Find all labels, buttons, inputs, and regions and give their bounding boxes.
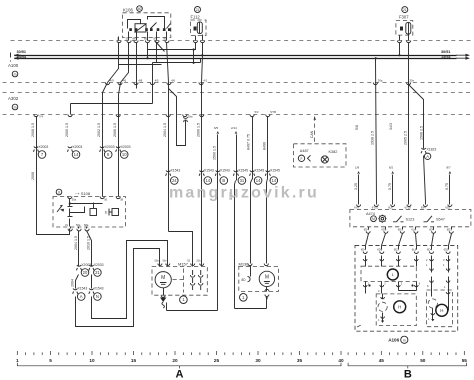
wire X2003/20 to X1543/A xyxy=(76,275,79,289)
connector X1545 /14 on wire x252 xyxy=(250,171,254,172)
pump M130 ground bumps xyxy=(265,289,269,291)
switch S108 top pin sockets xyxy=(68,197,72,199)
svg-text:N: N xyxy=(96,294,99,299)
wire link down to routing xyxy=(152,63,154,104)
wire stub arrow 5/1 xyxy=(358,175,360,202)
svg-text:~+ S108: ~+ S108 xyxy=(75,191,91,196)
svg-text:6X4: 6X4 xyxy=(421,205,426,209)
svg-text:X2033: X2033 xyxy=(94,263,104,267)
module boundary A302 dashed line xyxy=(3,114,471,116)
relay K106 pin sockets xyxy=(117,41,121,43)
motor M157 internal divider xyxy=(183,269,185,293)
ground link horizontal under M157 xyxy=(167,310,218,312)
lamp2 pin bottom xyxy=(432,309,434,315)
wire routing horizontal y103 xyxy=(71,103,153,105)
connector X1823 /A xyxy=(421,148,425,149)
svg-text:21: 21 xyxy=(95,270,100,275)
svg-text:14: 14 xyxy=(256,178,261,183)
lamp pin top xyxy=(382,294,384,299)
svg-text:14: 14 xyxy=(205,178,210,183)
svg-text:8D: 8D xyxy=(242,278,247,282)
inner dashed box illumination xyxy=(376,294,416,326)
wires A474 to A106 xyxy=(366,234,369,246)
circled position number F307 xyxy=(402,7,408,13)
pump M130 pin sockets xyxy=(248,264,252,266)
svg-text:1938 2.5: 1938 2.5 xyxy=(371,131,375,145)
svg-text:A100: A100 xyxy=(8,63,19,68)
right inner dashed box lamp 2 xyxy=(427,290,453,327)
svg-text:7/4: 7/4 xyxy=(39,115,43,119)
svg-text:87: 87 xyxy=(154,37,158,41)
boundary dashed line top (connector row) xyxy=(11,40,471,42)
junction dot bus 15 xyxy=(146,57,148,59)
svg-text:4/6: 4/6 xyxy=(171,79,175,83)
connector X2003 /20 xyxy=(77,265,81,266)
wire stub arrow 8/7 xyxy=(449,175,451,202)
svg-text:2004: 2004 xyxy=(71,279,75,287)
bold circle lamp H xyxy=(394,301,406,313)
connector X2003 /14 on wire x70 xyxy=(68,147,72,148)
svg-text:X1545: X1545 xyxy=(254,169,264,173)
ground run up to motor M130 xyxy=(266,297,268,309)
instrument module A106 outer dashed box xyxy=(355,246,458,332)
svg-text:40: 40 xyxy=(138,7,142,11)
symbol A474 gear xyxy=(379,216,385,222)
wire X1823 to A474 xyxy=(424,156,426,202)
svg-text:14: 14 xyxy=(74,152,79,157)
connector bump 5/3 on A302 xyxy=(250,115,254,117)
svg-text:4/1: 4/1 xyxy=(203,79,207,83)
svg-text:4/8: 4/8 xyxy=(138,79,142,83)
wire relay pin 87 to distribution xyxy=(156,43,158,63)
relay K106 contact terminals xyxy=(129,28,132,31)
svg-text:30/51: 30/51 xyxy=(441,50,451,54)
wire X2033/21 down xyxy=(91,275,93,289)
svg-text:F: F xyxy=(300,157,302,161)
junction dot F112 link xyxy=(193,48,195,50)
svg-text:X1545: X1545 xyxy=(238,169,248,173)
svg-text:S547: S547 xyxy=(436,217,445,221)
washer pump M130 dashed box xyxy=(239,266,279,291)
connector X1545 /31 on wire x236 xyxy=(234,171,238,172)
ruler section B ticks xyxy=(348,351,464,355)
svg-text:55: 55 xyxy=(462,358,468,363)
svg-text:85: 85 xyxy=(144,37,148,41)
relay K106 coil xyxy=(135,24,146,32)
svg-text:2/14: 2/14 xyxy=(231,126,237,130)
svg-text:6D4: 6D4 xyxy=(361,247,366,251)
wire A302 7/4 to switch S108 pin 1 xyxy=(37,117,70,235)
wire A302 5/7B to M130 pin 2 xyxy=(267,117,268,264)
svg-text:21: 21 xyxy=(403,8,407,12)
svg-text:1508 2.5: 1508 2.5 xyxy=(420,126,424,140)
svg-text:m: m xyxy=(14,73,17,77)
wire A302 5/3 to M130 pin 1 xyxy=(251,117,253,264)
svg-text:10: 10 xyxy=(122,152,127,157)
svg-text:53a: 53a xyxy=(155,260,160,263)
fuse F112 contact square xyxy=(194,27,197,31)
wire second feed right xyxy=(408,85,410,202)
svg-text:20: 20 xyxy=(172,358,178,363)
wire relay pin 85b down to X1543 xyxy=(167,43,169,232)
svg-text:45: 45 xyxy=(379,358,385,363)
wire X1543/A to M157 pin 53a xyxy=(76,249,160,327)
svg-text:6L6: 6L6 xyxy=(411,227,416,231)
symbol K382 circle X xyxy=(321,156,328,163)
svg-text:15/54: 15/54 xyxy=(441,55,451,59)
svg-text:X2003: X2003 xyxy=(39,145,49,149)
control module A474 pin sockets top xyxy=(357,205,361,207)
motor M157 suppressor coils xyxy=(192,270,194,290)
switch S108 contact column xyxy=(69,199,71,207)
svg-text:H: H xyxy=(440,308,443,313)
svg-text:X1545: X1545 xyxy=(270,169,280,173)
svg-text:F112: F112 xyxy=(191,15,201,20)
dashed circle rheostat xyxy=(378,302,387,311)
connector X1543 /14 on wire x202 xyxy=(200,171,204,172)
svg-text:20: 20 xyxy=(83,270,88,275)
wire S108 pin2 chain down xyxy=(78,231,80,267)
svg-text:6D1: 6D1 xyxy=(398,227,403,231)
svg-text:35: 35 xyxy=(297,358,303,363)
control unit A487 K382 dashed box xyxy=(294,144,347,167)
svg-text:5/3: 5/3 xyxy=(255,110,259,114)
symbol circle A100 xyxy=(12,71,18,77)
svg-text:14: 14 xyxy=(271,178,276,183)
svg-text:25: 25 xyxy=(214,358,220,363)
svg-text:M: M xyxy=(372,217,375,221)
wire X1543/N to M157 pin 53b xyxy=(92,241,168,319)
module boundary dashed line 2 xyxy=(3,92,471,94)
svg-text:30s: 30s xyxy=(410,79,415,83)
svg-text:4/9: 4/9 xyxy=(110,79,114,83)
ground symbol M157 xyxy=(160,298,166,303)
wire F307 right pin jog xyxy=(409,43,424,149)
fuse F112 dashed box xyxy=(191,20,207,36)
svg-text:A: A xyxy=(426,154,429,159)
svg-text:50: 50 xyxy=(420,358,426,363)
wire to motor M157 pin 53 xyxy=(169,232,193,264)
control module A474 dashed box xyxy=(350,210,471,227)
connector bumps on A100 boundary xyxy=(105,83,109,85)
svg-text:30: 30 xyxy=(126,37,130,41)
dashed circle rheostat 2 xyxy=(428,299,437,308)
motor M157 pin sockets xyxy=(158,264,162,266)
wire routing down to A302 connector xyxy=(70,104,72,115)
svg-text:1: 1 xyxy=(16,358,19,363)
svg-text:2006 1.5: 2006 1.5 xyxy=(113,123,117,137)
svg-text:A106: A106 xyxy=(388,337,399,342)
bus left arrows and labels xyxy=(14,55,21,58)
svg-text:58a: 58a xyxy=(84,223,89,227)
bold circle lamp 2 xyxy=(436,304,448,316)
wire A100 30a to A474 xyxy=(376,59,377,202)
ground designation circle 1 at M157 xyxy=(180,296,188,304)
svg-text:0.75: 0.75 xyxy=(388,183,392,190)
svg-text:X2003: X2003 xyxy=(105,145,115,149)
motor M157 circle xyxy=(155,272,171,288)
svg-text:30a: 30a xyxy=(72,198,77,202)
bus bar 15 (lower supply wire) xyxy=(15,58,457,60)
wire from arrow 2/14 to M130 ground xyxy=(236,135,238,181)
svg-text:5: 5 xyxy=(49,358,52,363)
ground run horizontal under M130 xyxy=(235,308,267,310)
svg-text:K106: K106 xyxy=(123,8,133,13)
svg-text:30/51: 30/51 xyxy=(17,50,27,54)
switch S108 aux contact xyxy=(90,209,97,216)
connector bump 5/7B on A302 xyxy=(266,115,270,117)
svg-text:8497 0.75: 8497 0.75 xyxy=(247,134,251,150)
right column connectors x448 upper xyxy=(448,256,450,263)
svg-text:15: 15 xyxy=(131,358,137,363)
svg-text:X1823: X1823 xyxy=(427,147,437,151)
symbol A474 circle M xyxy=(371,216,377,222)
svg-text:F307: F307 xyxy=(399,15,409,20)
right column connectors x431 upper xyxy=(431,256,433,263)
ground link up to M157 ground xyxy=(166,303,168,311)
fuse F307 dashed box xyxy=(396,21,413,36)
symbol circle A302 xyxy=(12,104,18,110)
ruler section A ticks xyxy=(17,351,341,355)
module boundary A100 dashed line xyxy=(3,82,471,84)
svg-text:B: B xyxy=(404,369,412,380)
relay K106 internal wiring xyxy=(128,20,141,29)
svg-text:2010 1.5: 2010 1.5 xyxy=(87,236,91,250)
svg-text:CAN: CAN xyxy=(310,130,314,138)
circled position number 40 xyxy=(137,6,143,12)
svg-text:8/7: 8/7 xyxy=(447,166,452,170)
svg-text:3.25: 3.25 xyxy=(354,183,358,190)
connector X2003 /7 on wire x36 xyxy=(34,147,38,148)
connector X1543 /A xyxy=(73,289,77,290)
relay K106 pin stubs xyxy=(128,32,130,41)
connector X2003 /10 on wire x118 xyxy=(116,147,120,148)
svg-text:6D6: 6D6 xyxy=(381,227,386,231)
wire F307 left pin to bus 30 xyxy=(399,43,401,56)
svg-text:10: 10 xyxy=(89,358,95,363)
svg-text:1/8: 1/8 xyxy=(355,166,360,170)
svg-text:2005 2.5: 2005 2.5 xyxy=(404,131,408,145)
connector crossing marks on A302 xyxy=(68,115,72,117)
motor M157 ground lead xyxy=(163,288,165,296)
svg-text:21: 21 xyxy=(196,8,200,12)
svg-text:8/2: 8/2 xyxy=(389,166,394,170)
wire X1545/31 down to ground run xyxy=(235,181,236,309)
svg-text:M: M xyxy=(161,275,165,281)
svg-text:2008 1.5: 2008 1.5 xyxy=(31,123,35,137)
lamp2 pin top xyxy=(431,277,433,283)
svg-text:6L6: 6L6 xyxy=(388,205,393,209)
bracket A xyxy=(17,363,341,369)
svg-text:6D1: 6D1 xyxy=(444,247,449,251)
wiper motor M157 dashed box xyxy=(152,266,207,295)
svg-text:X1543: X1543 xyxy=(94,287,104,291)
switch S123 symbol xyxy=(393,216,404,222)
column connectors A106 upper xyxy=(365,256,367,263)
junction dots below gauge box xyxy=(368,284,370,286)
connector X1543 /B on wire x218 xyxy=(216,171,220,172)
svg-text:0.75: 0.75 xyxy=(445,183,449,190)
switch S108 lever xyxy=(57,205,63,212)
svg-text:mangruzovik.ru: mangruzovik.ru xyxy=(169,185,319,202)
svg-text:6Y8: 6Y8 xyxy=(354,205,359,209)
wire relay pin 30 to A100 connector xyxy=(121,43,129,83)
svg-text:2004 1.5: 2004 1.5 xyxy=(163,123,167,137)
svg-text:15/54: 15/54 xyxy=(17,55,27,59)
switch S108 dashed box xyxy=(53,197,125,228)
svg-text:53e: 53e xyxy=(163,260,168,263)
module A106 pin sockets top xyxy=(363,252,367,254)
svg-text:6D1: 6D1 xyxy=(447,227,452,231)
connector X2003 /8 on wire x102 xyxy=(100,147,104,148)
connector X1543 /N xyxy=(89,289,93,290)
svg-text:24: 24 xyxy=(172,178,177,183)
relay K106 contact arm 1 xyxy=(151,23,157,29)
junction dot bus 30 at F112 xyxy=(201,54,203,56)
svg-text:6D4: 6D4 xyxy=(427,247,432,251)
bracket B xyxy=(348,363,466,369)
svg-text:56a: 56a xyxy=(76,223,81,227)
switch S547 symbol xyxy=(424,216,435,222)
bus bar 30 (upper supply wire) xyxy=(15,55,457,57)
link line below gauge xyxy=(365,288,367,294)
svg-text:K382: K382 xyxy=(329,150,338,154)
svg-text:6Y16: 6Y16 xyxy=(405,205,412,209)
svg-text:31: 31 xyxy=(240,178,245,183)
svg-text:6D1: 6D1 xyxy=(394,247,399,251)
symbol A487 chevron xyxy=(308,155,311,161)
wire link horizontal y65 xyxy=(119,64,162,66)
svg-text:6D4: 6D4 xyxy=(364,227,369,231)
svg-text:6D6: 6D6 xyxy=(377,247,382,251)
svg-text:2000 1.5: 2000 1.5 xyxy=(65,123,69,137)
svg-text:X1543: X1543 xyxy=(220,169,230,173)
wire stub with hook to A302 connector 30w xyxy=(169,89,186,146)
fuse F307 contact square xyxy=(400,27,403,31)
svg-text:A: A xyxy=(80,294,83,299)
svg-text:85: 85 xyxy=(164,37,168,41)
wire relay pin 1 to A100 connector xyxy=(108,43,119,83)
svg-text:6S1: 6S1 xyxy=(445,205,450,209)
outer box bottom corner dashes xyxy=(357,325,361,327)
svg-text:4/6: 4/6 xyxy=(122,79,126,83)
symbol A487 circle F xyxy=(298,155,304,161)
connector X2033 /21 xyxy=(89,265,93,266)
svg-text:S123: S123 xyxy=(406,217,415,221)
svg-text:1500 1.5: 1500 1.5 xyxy=(213,146,217,160)
right column 448 lower connectors xyxy=(448,277,450,283)
wire stub arrow 3/2 xyxy=(392,175,394,202)
svg-text:5/8: 5/8 xyxy=(355,125,359,130)
svg-text:m: m xyxy=(14,106,17,110)
connector X1545 /14b on wire x268 xyxy=(266,171,270,172)
relay K106 contact arm 2 xyxy=(167,24,171,29)
svg-text:6D4: 6D4 xyxy=(429,227,434,231)
svg-text:X1543: X1543 xyxy=(204,169,214,173)
circled symbol S108 xyxy=(56,189,62,195)
svg-text:A302: A302 xyxy=(8,96,19,101)
svg-text:X1543: X1543 xyxy=(171,169,181,173)
svg-text:6L6: 6L6 xyxy=(412,247,417,251)
junction dot on link xyxy=(193,62,195,64)
wire relay pin 86 down xyxy=(136,43,138,89)
wire diagonal jog below relay xyxy=(155,41,165,52)
connector bump 7/4 on A302 xyxy=(34,115,38,117)
pump M130 motor circle xyxy=(259,271,274,286)
svg-text:A: A xyxy=(176,369,184,380)
svg-text:34/3: 34/3 xyxy=(389,123,393,130)
svg-text:2008: 2008 xyxy=(31,172,35,180)
symbol circle A106 xyxy=(401,336,408,343)
svg-text:B: B xyxy=(222,178,225,183)
wire from arrow 6/5 to ground link xyxy=(217,135,219,311)
svg-text:8496: 8496 xyxy=(263,142,267,150)
connector bump 30w on A302 xyxy=(183,115,187,117)
svg-text:31b: 31b xyxy=(196,260,201,263)
svg-text:4/5: 4/5 xyxy=(155,79,159,83)
wire horizontal link y62.8 xyxy=(153,62,201,64)
svg-text:6Y10: 6Y10 xyxy=(372,205,379,209)
svg-text:40: 40 xyxy=(338,358,344,363)
switch S108 internal link xyxy=(70,207,85,213)
fuse F112 pin sockets xyxy=(193,41,197,43)
svg-text:2004 1.5: 2004 1.5 xyxy=(74,236,78,250)
svg-text:86: 86 xyxy=(133,37,137,41)
wire link right end to bus 15 xyxy=(200,59,202,63)
fuse F307 pin sockets xyxy=(397,41,401,43)
wire A100 to switch feed S108 pin a xyxy=(103,83,108,197)
svg-text:30: 30 xyxy=(255,358,261,363)
lamp pin bottom xyxy=(382,313,384,319)
inner dashed box gauge 1 xyxy=(361,266,416,281)
svg-text:6/5: 6/5 xyxy=(214,126,219,130)
svg-text:A487: A487 xyxy=(300,149,309,153)
switch S108 bottom pins xyxy=(70,227,72,229)
circled position number F112 xyxy=(195,7,201,13)
wire fuse F112 output to motor M157 xyxy=(202,56,203,264)
relay K106 dashed box xyxy=(123,13,171,38)
bold circle instrument 1 xyxy=(387,269,398,280)
connectors below gauge box xyxy=(365,282,367,288)
fuse F307 element xyxy=(406,23,411,35)
svg-text:5/7B: 5/7B xyxy=(270,110,276,114)
wire A100 to switch feed S108 pin b xyxy=(119,83,121,197)
svg-text:X2003: X2003 xyxy=(73,145,83,149)
wire fuse F112 right pin to bus 30 xyxy=(202,43,204,56)
connector X1543 /24 on wire x168 xyxy=(166,171,170,172)
CAN dashed stub xyxy=(314,117,316,144)
connector bump 30a right xyxy=(373,83,377,85)
wire S108 pin3 chain down xyxy=(87,231,92,267)
svg-text:X2003: X2003 xyxy=(121,145,131,149)
wire relay pin 85 to bus 15 xyxy=(147,43,149,59)
control module A474 pin sockets bottom xyxy=(366,231,370,233)
switch S108 internal bus and junction xyxy=(69,202,71,204)
svg-text:8: 8 xyxy=(58,191,60,195)
fuse F112 element xyxy=(197,22,202,34)
svg-text:H: H xyxy=(398,305,401,310)
svg-text:X1543: X1543 xyxy=(78,287,88,291)
ground designation circle 1 at M130 xyxy=(240,294,248,302)
svg-text:M: M xyxy=(265,274,269,280)
svg-text:m: m xyxy=(403,338,406,342)
svg-text:2002 1.5: 2002 1.5 xyxy=(97,123,101,137)
svg-text:2006 1.5: 2006 1.5 xyxy=(197,123,201,137)
wire fuse F112 left pin link xyxy=(148,43,196,50)
vertical tie F112 xyxy=(193,50,195,63)
svg-text:30a: 30a xyxy=(378,79,383,83)
